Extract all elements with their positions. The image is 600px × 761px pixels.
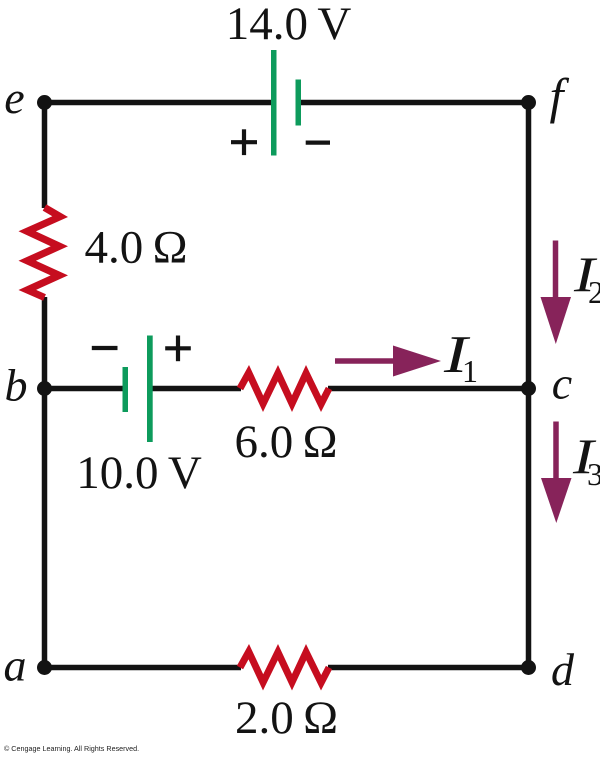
node a (junction dot) (37, 660, 52, 675)
svg-text:10.0 V: 10.0 V (76, 447, 202, 499)
label 6.0 ohm (234, 416, 337, 468)
node e (junction dot) (37, 95, 52, 110)
wire middle-right: R 6.0 to c (328, 386, 529, 392)
current arrow I3 (541, 422, 572, 524)
wire left upper: e to R 4.0 (42, 100, 48, 208)
label 14.0 V (226, 0, 352, 50)
label 10.0 V (76, 447, 202, 499)
svg-text:1: 1 (462, 353, 478, 389)
label I2 (573, 248, 600, 310)
svg-text:a: a (4, 640, 27, 691)
node c (junction dot) (521, 381, 536, 396)
current arrow I2 (541, 241, 572, 345)
label 2.0 ohm (235, 692, 338, 744)
label node b (5, 360, 28, 411)
resistor 4.0 ohm (19, 204, 69, 300)
wire top-left: e to battery (45, 100, 272, 106)
svg-text:b: b (5, 360, 28, 411)
battery 10.0 V negative plate (short) (123, 367, 129, 412)
node b (junction dot) (37, 381, 52, 396)
svg-text:14.0 V: 14.0 V (226, 0, 352, 50)
wire bottom-right: R 2.0 to d (328, 665, 529, 671)
polarity - of 14.0 V battery (306, 141, 330, 145)
label node d (551, 644, 575, 695)
svg-text:2: 2 (588, 274, 600, 310)
label I1 (443, 325, 478, 389)
svg-text:3: 3 (587, 456, 600, 492)
wire middle-center: battery 10.0 V to R 6.0 (152, 386, 241, 392)
battery 14.0 V negative plate (short) (296, 80, 302, 126)
battery 14.0 V positive plate (long) (271, 50, 277, 156)
svg-text:c: c (552, 358, 572, 409)
polarity - of 10.0 V battery (92, 346, 118, 350)
svg-text:d: d (551, 644, 575, 695)
current arrow I1 (335, 346, 441, 377)
resistor 6.0 ohm (237, 365, 332, 412)
svg-text:e: e (4, 72, 24, 123)
copyright line (4, 744, 139, 753)
svg-text:2.0 Ω: 2.0 Ω (235, 692, 338, 744)
svg-text:6.0 Ω: 6.0 Ω (234, 416, 337, 468)
polarity + of 14.0 V battery (231, 129, 257, 155)
label I3 (572, 430, 600, 492)
svg-text:© Cengage Learning. All Rights: © Cengage Learning. All Rights Reserved. (4, 744, 139, 753)
label node a (4, 640, 27, 691)
svg-text:4.0 Ω: 4.0 Ω (84, 222, 187, 274)
svg-text:f: f (550, 68, 570, 124)
wire bottom-left: a to R 2.0 (45, 665, 242, 671)
label 4.0 ohm (84, 222, 187, 274)
wire left lower: R 4.0 to b to a (42, 297, 48, 670)
label node c (552, 358, 572, 409)
node d (junction dot) (521, 660, 536, 675)
wire middle-left: b to battery 10.0 V (45, 386, 124, 392)
wire right: f to c to d (526, 100, 532, 670)
battery 10.0 V positive plate (long) (147, 336, 153, 443)
label node f (550, 68, 570, 124)
wire top-right: battery to f (301, 100, 529, 106)
polarity + of 10.0 V battery (165, 336, 191, 362)
resistor 2.0 ohm (237, 644, 332, 691)
label node e (4, 72, 24, 123)
node f (junction dot) (521, 95, 536, 110)
